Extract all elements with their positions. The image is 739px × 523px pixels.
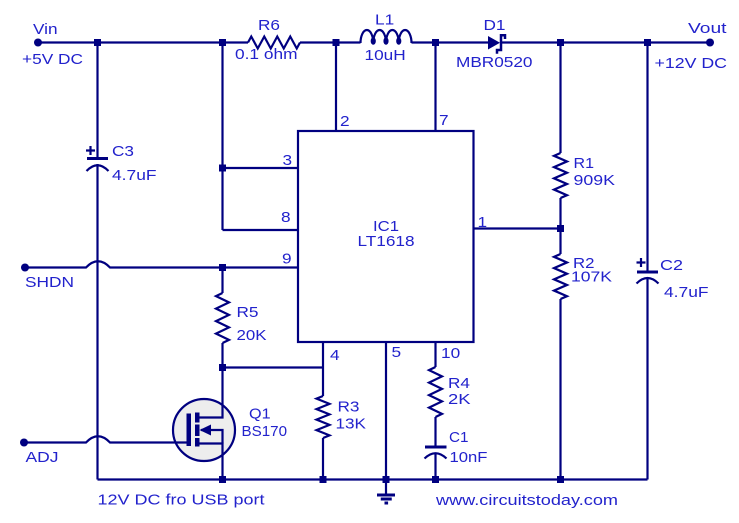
wire pin 2 vertical	[335, 43, 337, 132]
svg-text:D1: D1	[484, 17, 506, 34]
inductor L1	[361, 30, 412, 43]
svg-text:+5V DC: +5V DC	[22, 51, 83, 68]
capacitor C2	[637, 271, 658, 274]
wire L1 to D1	[412, 41, 489, 43]
svg-text:10nF: 10nF	[450, 449, 488, 466]
svg-text:2: 2	[340, 113, 350, 130]
wire R3 bottom	[322, 438, 324, 480]
svg-text:+12V DC: +12V DC	[655, 55, 728, 72]
junction dot top rail R1	[557, 39, 564, 46]
label plus C2	[637, 258, 646, 267]
Q1 gate bar	[187, 414, 192, 447]
junction dot pin5 ground	[383, 476, 390, 483]
wire D1 to Vout	[501, 41, 710, 43]
junction dot R3 bottom	[320, 476, 327, 483]
svg-text:R3: R3	[338, 399, 360, 416]
wire R6 to L1	[300, 41, 361, 43]
wire R2 bottom	[559, 299, 561, 480]
svg-text:C1: C1	[449, 429, 469, 446]
svg-text:Q1: Q1	[249, 406, 271, 423]
wire R4 to C1	[434, 417, 436, 447]
junction dot R2 bottom	[557, 476, 564, 483]
svg-text:3: 3	[283, 152, 293, 169]
wire C3 branch upper	[96, 43, 98, 159]
junction dot C1 bottom	[432, 476, 439, 483]
junction dot top rail pin 7	[432, 39, 439, 46]
svg-text:SHDN: SHDN	[25, 274, 74, 291]
svg-text:LT1618: LT1618	[358, 233, 415, 250]
Q1 body arrow	[201, 430, 223, 444]
wire pins 3-8 vertical	[221, 43, 223, 231]
wire C2 top	[646, 43, 648, 273]
svg-text:ADJ: ADJ	[26, 449, 59, 466]
diode D1 MBR0520	[488, 36, 500, 50]
Q1 source wire	[200, 444, 223, 480]
wire pin 4 vertical	[322, 342, 324, 396]
wire R1 bottom to pin1 junction	[559, 198, 561, 254]
svg-text:7: 7	[439, 112, 449, 129]
wire top rail Vin to R6	[38, 41, 248, 43]
wire R1 top	[559, 43, 561, 154]
junction dot pin3	[219, 165, 226, 172]
wire C3 branch lower	[96, 164, 98, 480]
svg-text:C2: C2	[660, 257, 683, 274]
IC U1 box	[298, 131, 474, 342]
svg-text:8: 8	[281, 209, 291, 226]
junction dot top rail C3	[94, 39, 101, 46]
svg-text:R6: R6	[258, 17, 280, 34]
resistor R1	[554, 153, 567, 198]
resistor R4	[429, 367, 442, 417]
terminal Vout	[706, 39, 714, 47]
svg-text:R4: R4	[448, 375, 470, 392]
wire pin 3	[223, 167, 299, 169]
capacitor C3	[87, 157, 108, 160]
svg-text:9: 9	[282, 251, 292, 268]
wire ADJ to gate with hop	[24, 436, 187, 442]
resistor R3	[317, 396, 330, 438]
junction dot pin1 divider	[557, 225, 564, 232]
terminal Vin	[34, 39, 42, 47]
transistor Q1 circle	[173, 399, 235, 461]
svg-text:4: 4	[330, 347, 340, 364]
svg-text:10: 10	[441, 345, 460, 362]
wire C1 bottom	[434, 453, 436, 480]
svg-text:R5: R5	[237, 304, 259, 321]
resistor R6	[248, 37, 300, 49]
junction dot pin9 R5	[219, 264, 226, 271]
junction dot Q1 source bottom	[219, 476, 226, 483]
svg-text:4.7uF: 4.7uF	[112, 167, 157, 184]
terminal SHDN	[21, 264, 29, 272]
junction dot top rail pin 2	[333, 39, 340, 46]
terminal ADJ	[20, 439, 28, 447]
svg-text:L1: L1	[375, 12, 394, 29]
wire R5 top	[221, 268, 223, 294]
Q1 channel bar segments	[195, 413, 200, 423]
label plus C3	[86, 146, 95, 155]
wire R5 bottom	[221, 343, 223, 368]
wire pin 1	[474, 227, 561, 229]
svg-text:Vout: Vout	[688, 20, 728, 37]
svg-text:1: 1	[478, 214, 488, 231]
svg-text:107K: 107K	[571, 269, 612, 286]
wire pin 8	[223, 229, 299, 231]
wire R5 junction to pin 4	[223, 366, 324, 368]
resistor R2	[554, 254, 567, 299]
svg-text:13K: 13K	[336, 416, 367, 433]
svg-text:0.1 ohm: 0.1 ohm	[235, 46, 298, 63]
svg-text:MBR0520: MBR0520	[456, 54, 533, 71]
wire C2 bottom	[646, 277, 648, 480]
junction dot top rail pins 3-8	[219, 39, 226, 46]
svg-text:909K: 909K	[574, 172, 616, 189]
svg-text:www.circuitstoday.com: www.circuitstoday.com	[435, 492, 618, 509]
capacitor C1	[425, 446, 447, 449]
svg-text:10uH: 10uH	[365, 47, 406, 64]
wire pin 10 vertical	[434, 342, 436, 367]
resistor R5	[216, 293, 229, 343]
ground	[385, 480, 387, 496]
junction dot top rail C2	[644, 39, 651, 46]
svg-text:Vin: Vin	[33, 21, 58, 38]
svg-text:12V DC fro USB port: 12V DC fro USB port	[98, 492, 266, 509]
wire SHDN to pin 9 with hop	[25, 261, 298, 267]
wire pin 7 vertical	[434, 43, 436, 132]
svg-text:20K: 20K	[237, 327, 267, 344]
junction dot R5 pin4	[219, 364, 226, 371]
svg-text:2K: 2K	[448, 391, 471, 408]
Q1 drain wire	[200, 368, 223, 418]
wire bottom rail	[98, 478, 648, 480]
svg-text:C3: C3	[112, 143, 134, 160]
svg-text:4.7uF: 4.7uF	[664, 284, 709, 301]
svg-text:BS170: BS170	[242, 423, 288, 440]
svg-text:R1: R1	[574, 155, 595, 172]
wire pin 5 vertical	[385, 342, 387, 480]
svg-text:5: 5	[392, 344, 402, 361]
